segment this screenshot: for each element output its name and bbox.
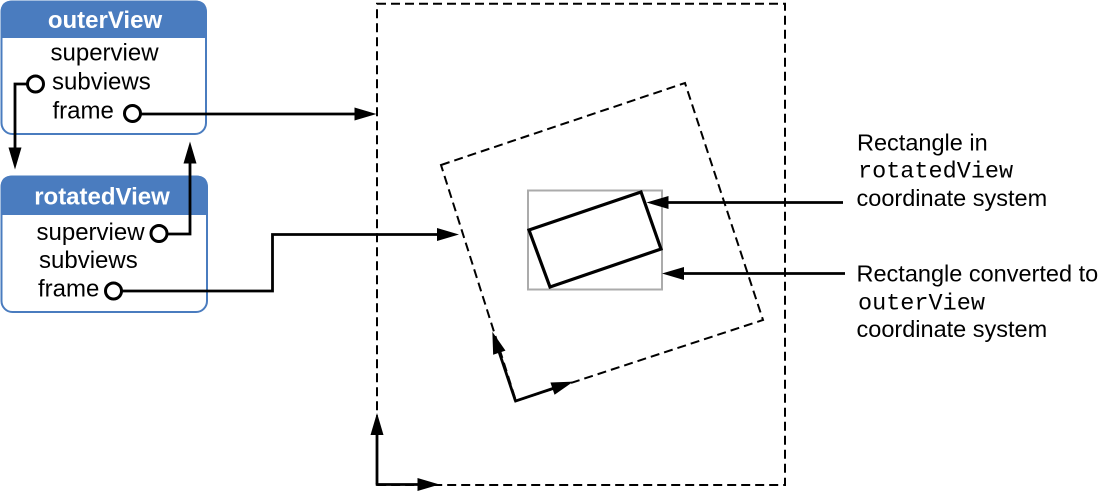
svg-text:Rectangle in: Rectangle in [857,130,988,156]
wire: rotatedView.superview -> outerView (up arrow) [167,142,197,235]
svg-text:rotatedView: rotatedView [858,159,1013,186]
svg-text:Rectangle converted to: Rectangle converted to [857,261,1099,287]
svg-text:superview: superview [37,219,146,246]
svg-text:rotatedView: rotatedView [34,184,170,211]
svg-text:outerView: outerView [48,7,163,34]
label: Rectangle converted to outerView coordinate system [857,261,1099,343]
svg-text:superview: superview [51,40,160,67]
label: Rectangle in rotatedView coordinate system [857,130,1048,212]
svg-text:frame: frame [38,276,99,303]
rotatedView box [2,177,208,313]
big dashed rectangle (outerView bounds) [377,4,785,485]
svg-text:frame: frame [53,98,114,125]
gray rectangle (converted rect in outerView coords) [528,191,662,290]
wire: rotatedView.frame -> rotated square [122,228,460,291]
outerView box [2,2,207,135]
svg-text:coordinate system: coordinate system [857,185,1048,211]
wire: outerView.frame -> dashed rect [141,108,377,121]
rotatedView axes (rotated, at square bottom corner) [486,312,575,409]
outerView axes (bottom-left of dashed rect) [371,413,440,491]
callout arrow 1: to black rect [647,196,844,209]
wire: outerView.subviews -> rotatedView (down arrow) [9,84,28,170]
svg-text:subviews: subviews [39,247,138,274]
svg-text:subviews: subviews [52,69,151,96]
callout arrow 2: to gray rect [662,267,845,280]
black rotated rectangle (rect in rotatedView coords) [529,192,661,287]
svg-text:outerView: outerView [858,291,985,318]
rotated dashed square (rotatedView bounds) [441,83,763,401]
svg-text:coordinate system: coordinate system [857,316,1048,342]
